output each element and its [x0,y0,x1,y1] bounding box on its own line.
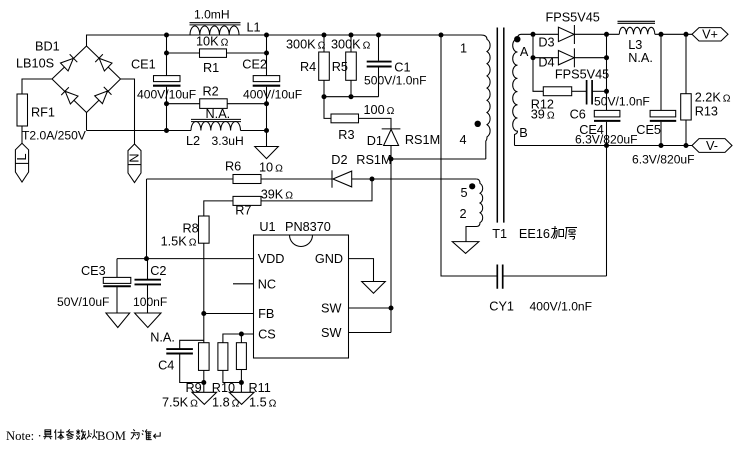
svg-text:R7: R7 [235,204,251,218]
resistor R3 100 [331,103,395,142]
svg-text:2: 2 [460,207,467,221]
svg-text:C6: C6 [570,107,586,121]
resistor R6 10 [147,160,332,184]
resistor R7 39K [233,188,293,218]
svg-text:BD1: BD1 [35,40,60,54]
transformer T1 aux winding pins 5-2 [460,179,483,242]
svg-text:C4: C4 [158,359,174,373]
svg-text:CE1: CE1 [131,57,156,71]
resistor R10 1.8 [212,343,242,410]
resistor R4 300K [286,35,329,97]
svg-text:FPS5V45: FPS5V45 [546,11,600,25]
svg-text:N.A.: N.A. [206,107,231,121]
wire D2 anode to aux winding pin5 [352,178,477,180]
capacitor C6 50V/1.0nF [570,80,650,121]
svg-text:1.5KΩ: 1.5KΩ [161,235,197,249]
svg-text:400V/1.0nF: 400V/1.0nF [530,300,593,314]
svg-text:Note:: Note: [6,429,34,443]
wire R3 to D1 cathode [359,118,392,128]
svg-text:1.0mH: 1.0mH [194,8,230,22]
wire cathode bus down through CE4 to CY1 [606,34,608,276]
capacitor CE5 6.3V/820uF [632,34,695,166]
diode D1 RS1M [367,129,440,148]
transformer T1 secondary winding pins A-B [513,34,533,145]
wire CS pin to sense resistors [223,334,254,343]
svg-text:U1: U1 [259,220,275,234]
wire primary minus rail [87,130,192,132]
svg-text:D2: D2 [331,153,347,167]
svg-text:L1: L1 [247,21,261,35]
ground below L2 rail [255,147,279,159]
svg-text:R5: R5 [332,60,348,74]
wire D3 cathode to output node [574,33,619,35]
node primary polarity dot [475,121,481,127]
resistor R13 2.2K [681,34,731,145]
svg-text:39KΩ: 39KΩ [261,188,294,202]
svg-text:L: L [15,153,29,160]
svg-text:R2: R2 [203,84,219,98]
svg-text:NC: NC [258,277,276,291]
svg-text:N.A.: N.A. [150,331,175,345]
svg-text:CY1: CY1 [489,300,514,314]
transformer T1 primary winding pins 1-4 [460,35,491,159]
svg-text:50V/1.0nF: 50V/1.0nF [594,95,650,109]
wire NC stub [233,283,254,285]
wire R7 to R8 [204,201,233,216]
resistor R12 39 [531,87,572,122]
wire L3 to V+ [655,33,692,35]
svg-text:100Ω: 100Ω [364,103,395,117]
svg-text:10KΩ: 10KΩ [196,35,229,49]
svg-text:400V/10uF: 400V/10uF [137,88,196,102]
svg-text:RF1: RF1 [31,106,55,120]
diode D4 FPS5V45 [538,48,609,81]
ground below GND pin [362,282,386,294]
wire R8 to FB node and R9 [203,243,205,343]
svg-text:N.A.: N.A. [628,51,653,65]
capacitor C1 500V/1.0nF [364,35,427,97]
wire top HV rail from bridge to transformer pin 1 [87,35,482,47]
svg-text:7.5KΩ: 7.5KΩ [162,396,198,410]
svg-text:BOM: BOM [97,429,126,443]
svg-text:R6: R6 [225,160,241,174]
resistor R1 10K [167,35,267,75]
svg-text:CE5: CE5 [636,123,661,137]
connector N [128,144,142,183]
svg-text:RS1M: RS1M [405,133,440,147]
transformer T1 core [497,28,504,223]
wire D4 cathode to output node [574,57,606,59]
diode D2 RS1M [331,153,391,188]
svg-text:B: B [519,126,527,140]
bridge rectifier BD1 LB10S [16,40,121,113]
svg-text:R1: R1 [203,61,219,75]
svg-text:FPS5V45: FPS5V45 [555,67,609,81]
wire D2 node down to R7 [261,179,372,201]
svg-text:50V/10uF: 50V/10uF [57,295,109,309]
capacitor CE3 50V/10uF [57,259,131,313]
resistor R5 300K [331,35,371,97]
svg-text:VDD: VDD [258,252,285,266]
svg-text:10Ω: 10Ω [259,161,283,175]
svg-text:T2.0A/250V: T2.0A/250V [22,129,87,143]
svg-text:5: 5 [461,186,468,200]
resistor R11 1.5 [236,334,276,410]
svg-text:R4: R4 [300,60,316,74]
svg-text:↵: ↵ [153,429,164,443]
svg-text:V+: V+ [702,28,718,42]
wire CY1 to secondary V- [503,275,607,277]
svg-text:3.3uH: 3.3uH [212,134,244,148]
svg-text:L2: L2 [186,134,200,148]
svg-text:C2: C2 [150,264,166,278]
wire clamp bottom row [324,96,379,98]
svg-text:FB: FB [258,307,274,321]
capacitor CE1 400V/10uF [131,35,196,131]
svg-text:RS1M: RS1M [356,153,391,167]
svg-text:D3: D3 [538,35,554,49]
svg-text:EE16: EE16 [519,227,550,241]
svg-text:A: A [520,45,529,59]
wire VDD rail [117,258,254,260]
capacitor C4 N.A. [150,331,204,383]
note text [6,429,163,443]
node aux polarity dot [469,183,475,189]
wire C6 to cathode bus [592,90,606,92]
ground below C2 [135,313,161,328]
wire bridge bottom to primary minus rail [86,113,88,131]
svg-text:SW: SW [321,302,341,316]
wire HV rail down to CY1 [441,35,497,276]
resistor R8 1.5K [161,216,210,249]
wire secondary A node [533,33,558,35]
wire V- rail [515,145,693,147]
svg-text:300KΩ: 300KΩ [286,37,326,51]
node secondary polarity dot [514,36,520,42]
label jia hou (Chinese) [551,226,564,239]
svg-text:2.2KΩ: 2.2KΩ [695,91,731,105]
svg-text:R8: R8 [183,222,199,236]
svg-text:39Ω: 39Ω [531,108,555,122]
capacitor CE4 6.3V/820uF [575,110,638,146]
capacitor CE2 400V/10uF [242,35,302,147]
svg-text:CE2: CE2 [242,57,267,71]
svg-text:4: 4 [460,133,467,147]
svg-text:R3: R3 [338,128,354,142]
wire FB pin to divider [204,313,254,315]
wire A node down to D4 and R12 [533,34,543,91]
ground below R11 [229,392,254,404]
svg-text:100nF: 100nF [133,295,167,309]
svg-text:LB10S: LB10S [16,57,54,71]
wire RF1 to L connector [21,126,23,143]
ground below CE3 [106,313,130,328]
svg-text:D1: D1 [367,134,383,148]
svg-text:400V/10uF: 400V/10uF [243,88,302,102]
op-amp U1 PN8370 controller IC [254,220,349,358]
svg-text:SW: SW [321,326,341,340]
svg-text:·: · [38,429,42,443]
wire top rail segment CE1 to L1 [167,34,267,36]
inductor L3 N.A. [618,21,656,65]
svg-text:PN8370: PN8370 [285,220,331,234]
connector V+ [692,28,728,42]
svg-text:N: N [128,153,142,162]
connector V- [692,139,732,153]
svg-text:T1: T1 [492,227,507,241]
resistor R2 N.A. [167,84,267,108]
svg-text:L3: L3 [628,38,642,52]
wire bridge right corner to N connector [121,79,135,144]
wire R12 to C6 [572,90,587,92]
svg-text:CS: CS [258,328,276,342]
capacitor C2 100nF [133,259,167,313]
note Chinese text [43,429,151,439]
ground below aux winding [452,242,479,254]
wire SW pin 1 [349,307,392,309]
wire AC live from fuse to bridge left corner [22,79,52,94]
svg-text:GND: GND [315,252,343,266]
svg-text:6.3V/820uF: 6.3V/820uF [632,153,695,167]
svg-text:D4: D4 [538,56,554,70]
wire R6 node down to VDD rail [146,179,148,259]
inductor L2 3.3uH N.A. [186,107,244,148]
wire D4 anode [533,57,558,59]
diode D3 FPS5V45 [538,11,599,50]
svg-text:1: 1 [460,42,467,56]
ground below R9 [192,392,217,404]
svg-text:CE3: CE3 [81,264,106,278]
wire D1 anode to SW node [390,146,392,333]
capacitor CY1 400V/1.0nF [489,265,592,314]
wire SW pin 2 [349,332,392,334]
transformer T1 labels [492,227,550,241]
connector L [15,143,29,182]
resistor R9 7.5K [162,343,209,410]
svg-text:V-: V- [706,139,718,153]
svg-text:C1: C1 [394,61,410,75]
wire GND pin [349,259,374,282]
svg-text:R13: R13 [695,105,718,119]
wire clamp to R3 [324,97,331,119]
inductor L1 1.0mH [190,8,261,36]
wire SW node to transformer pin 4 [391,158,486,160]
svg-text:1.5Ω: 1.5Ω [249,396,277,410]
fuse RF1 [17,94,87,143]
svg-text:500V/1.0nF: 500V/1.0nF [364,74,427,88]
svg-text:300KΩ: 300KΩ [331,37,371,51]
